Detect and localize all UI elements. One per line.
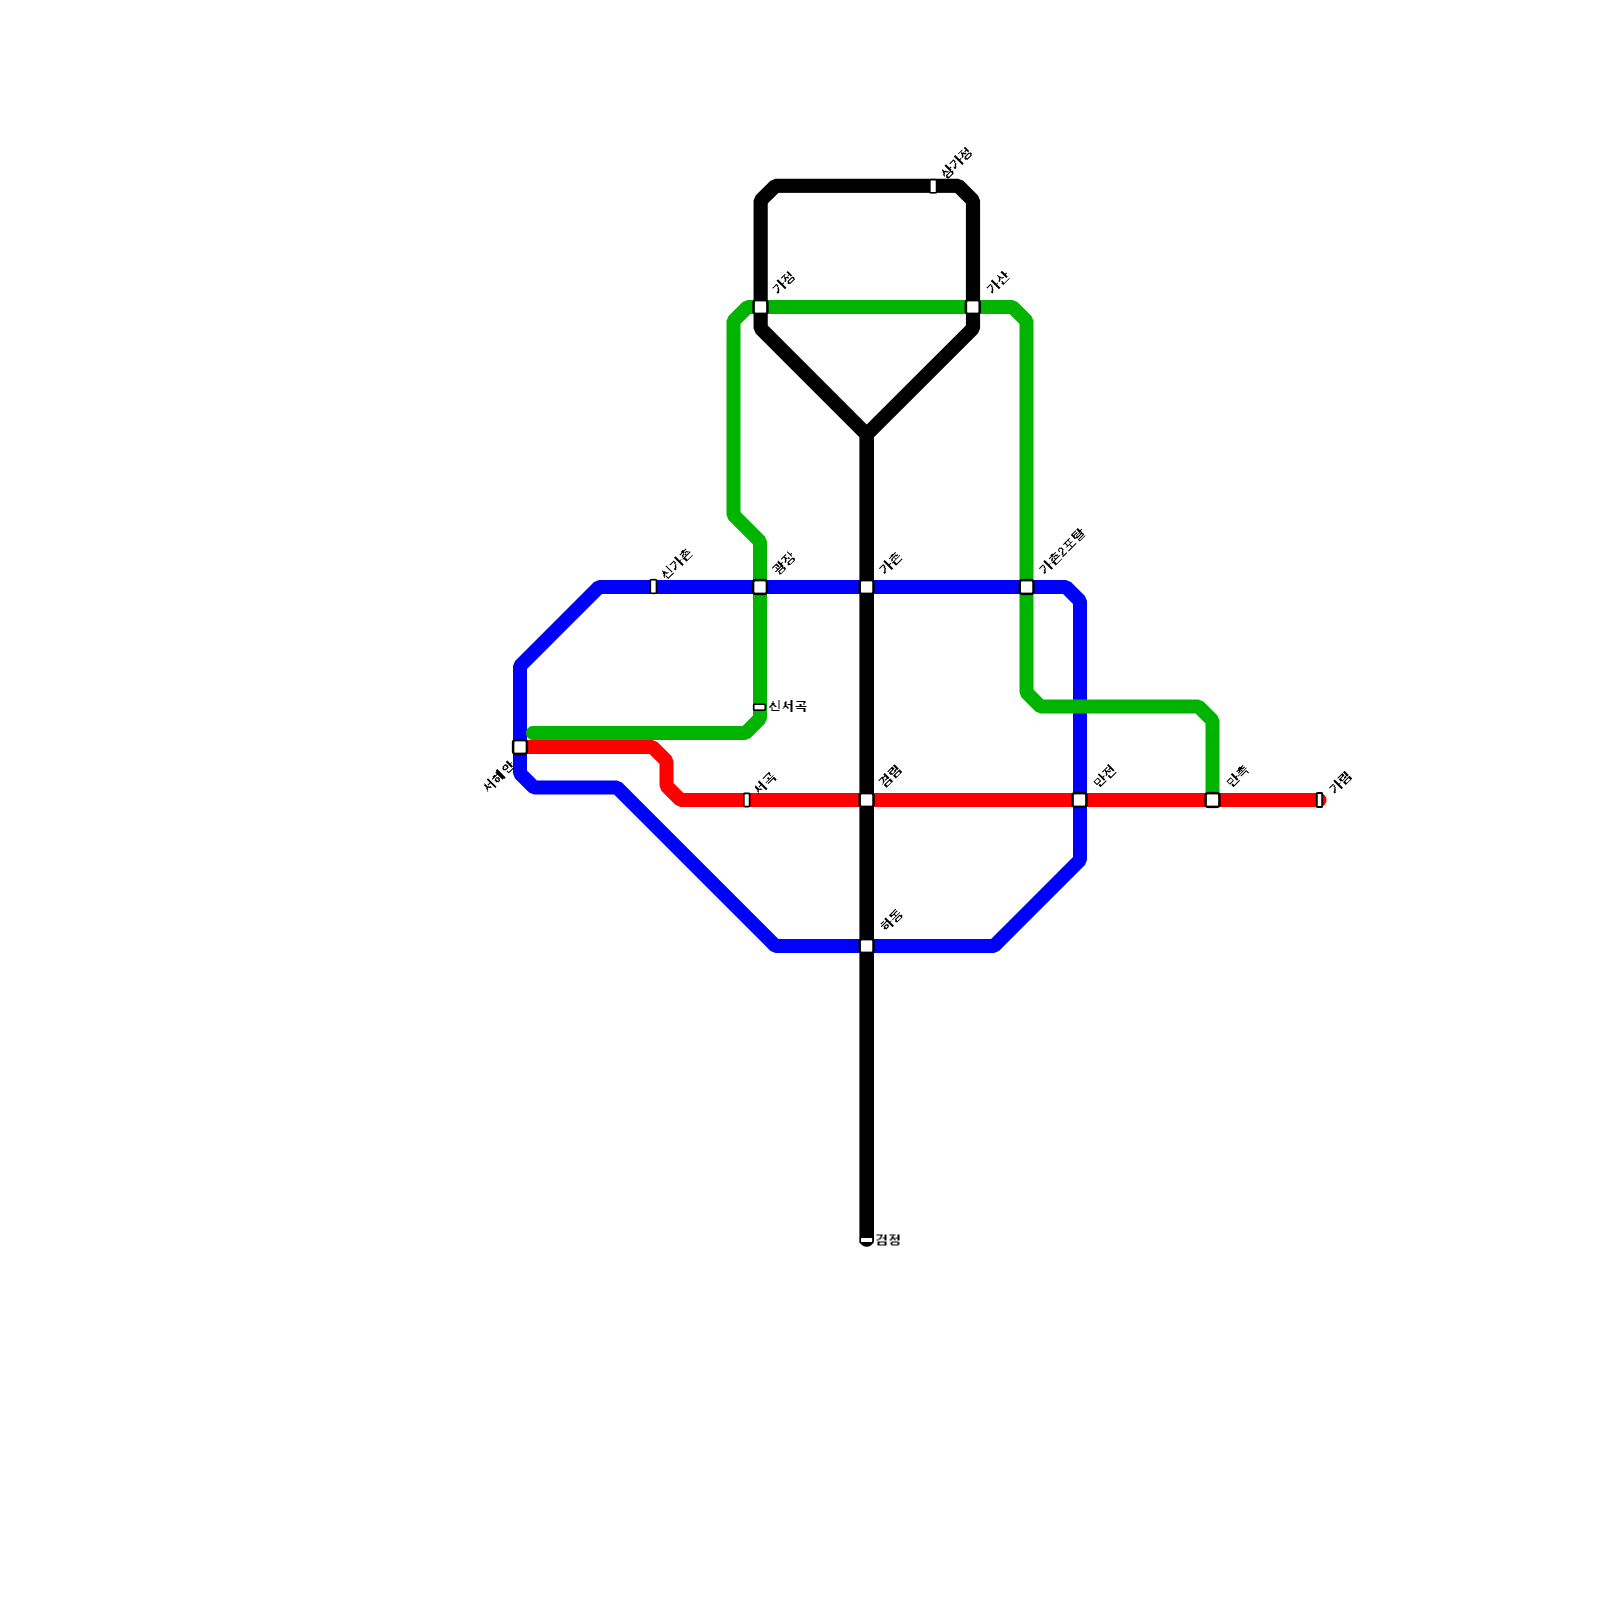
label 광장 [771, 550, 797, 576]
label 신서곡 [769, 700, 806, 712]
station 겸림 (interchange) [860, 793, 874, 807]
label 신가촌 [659, 546, 694, 581]
label 가산 [985, 269, 1011, 295]
label 검정 [876, 1235, 899, 1246]
station 만전 (interchange) [1073, 793, 1087, 807]
label 가촌 [878, 550, 903, 575]
station 만촉 (interchange) [1206, 793, 1220, 807]
station 신가촌 (small) [650, 580, 656, 594]
station 광장 (interchange) [753, 580, 767, 594]
station 가촌 (interchange) [860, 580, 874, 594]
black line: trunk (가촌-겸림-하동-검정) [859, 436, 874, 1240]
station 하동 (interchange) [860, 939, 874, 953]
station 가산 (interchange) [966, 300, 980, 314]
label 만촉 [1225, 763, 1250, 788]
label 겸림 [878, 764, 903, 789]
label 가정 [771, 270, 796, 295]
label 서해안 [481, 759, 516, 794]
station 가촌2포탈 (interchange) [1020, 580, 1034, 594]
blue line: loop (신가촌-광장-가촌-가촌2포탈-만전-하동-서해안) [520, 587, 1080, 946]
label 만전 [1092, 764, 1117, 789]
label 가림 [1328, 770, 1353, 795]
label 상가정 [939, 146, 973, 180]
label 하동 [879, 908, 904, 933]
black line: top loop (상가정/가정/가산) [761, 186, 973, 435]
station 가정 (interchange) [754, 300, 768, 314]
green line: 가정-가산-광장-신서곡-가촌2포탈-만촉 branch [533, 307, 1213, 800]
station 상가정 (small) [930, 180, 937, 193]
station 신서곡 (small) [754, 704, 766, 710]
red line: 서해안-서곡-겸림-만전-만촉-가림 [520, 747, 1320, 800]
label 가촌2포탈 [1038, 526, 1087, 575]
terminus 검정 marker [860, 1237, 873, 1243]
terminus 가림 marker [1317, 793, 1322, 807]
station 서해안 (interchange) [513, 740, 527, 754]
label 서곡 [752, 771, 777, 796]
station 서곡 (small) [744, 793, 750, 806]
